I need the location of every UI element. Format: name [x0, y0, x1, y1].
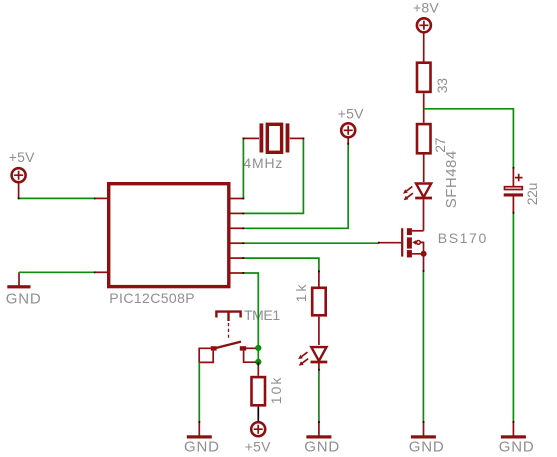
source junction dot: [421, 251, 427, 257]
wire LED2 to GND: [318, 370, 320, 422]
svg-text:+5V: +5V: [9, 149, 35, 165]
wire +5V mid to pin r3: [243, 145, 348, 229]
lead to R4: [257, 366, 259, 376]
supply +5V top-left: [12, 168, 26, 182]
switch S1 TME1 bracket: [216, 312, 240, 321]
svg-text:10k: 10k: [268, 376, 284, 405]
LED D2 arrows: [298, 352, 308, 366]
pin left 1: [96, 197, 107, 199]
wire crystal right to pin r2: [243, 138, 303, 213]
wire GND to IC pin: [19, 271, 96, 273]
top plate: [505, 187, 523, 190]
svg-text:TME1: TME1: [244, 307, 280, 323]
pin right 4: [230, 242, 243, 244]
LED D1 SFH484: [415, 184, 432, 199]
IC U1 PIC12C508P body: [109, 184, 229, 287]
ground GND 4: [423, 422, 425, 436]
wire R3 to LED2: [318, 317, 320, 345]
wire cap to GND: [512, 213, 514, 422]
resistor R4 10k: [252, 377, 266, 405]
lead LED2 down: [318, 363, 320, 370]
black lead dot2 to R4: [257, 362, 259, 365]
switch right pin top: [246, 347, 255, 349]
svg-text:+5V: +5V: [338, 105, 364, 121]
wire pin r5 to R3: [243, 258, 319, 271]
ground GND 5: [512, 422, 514, 436]
wire crystal left to pin r1: [242, 138, 244, 198]
channel blocks: [407, 228, 412, 235]
LED D2: [311, 347, 328, 362]
wire junction R1R2 to cap (net V8 branch): [424, 109, 514, 168]
right plate: [286, 123, 290, 152]
resistor R1 33: [417, 63, 431, 92]
left plate: [259, 123, 263, 152]
wire LED1 to Q1 drain: [423, 199, 425, 230]
switch right pin bottom: [244, 351, 255, 363]
ground GND 3: [318, 422, 320, 436]
ground GND 2: [198, 422, 200, 436]
wire R2 to LED1: [423, 154, 425, 182]
gate pin: [379, 242, 402, 244]
wire +8V to R1: [423, 33, 425, 62]
supply +8V: [417, 18, 431, 32]
wire pin r4 to Q1 gate: [243, 242, 378, 245]
junction dot 2: [255, 359, 261, 365]
resistor R2 27: [417, 124, 431, 153]
supply +5V mid: [341, 123, 355, 137]
ground GND left: [18, 272, 20, 285]
LED D1 arrows: [403, 187, 413, 201]
black lead R4 to +5V: [257, 407, 259, 422]
drain lead: [412, 230, 424, 232]
wire switch net from pin r6: [243, 273, 258, 362]
body rect: [267, 124, 281, 152]
crystal Q2 4MHz: [243, 123, 303, 152]
supply +5V bottom: [251, 422, 265, 436]
transistor Q1 BS170: [379, 228, 427, 271]
wire R1 to R2: [423, 93, 425, 123]
pin +5V top-left: [18, 182, 20, 198]
svg-text:1k: 1k: [293, 282, 309, 302]
pin right 5: [230, 257, 243, 259]
switch left pin loop: [199, 348, 213, 362]
switch right contact: [240, 346, 246, 350]
switch right pin top black tip: [255, 347, 259, 349]
svg-text:GND: GND: [304, 439, 340, 456]
switch left contact: [211, 346, 217, 350]
svg-text:22u: 22u: [524, 183, 540, 205]
svg-text:4MHz: 4MHz: [243, 155, 283, 171]
lead to R3: [318, 272, 320, 287]
wire Q1 source to GND: [422, 271, 424, 422]
capacitor C1 22u: [504, 168, 523, 213]
junction dot 1: [255, 345, 261, 351]
gate bar: [401, 228, 403, 256]
svg-text:+5V: +5V: [245, 439, 271, 455]
svg-text:GND: GND: [184, 439, 220, 456]
svg-text:SFH484: SFH484: [443, 150, 460, 208]
svg-text:GND: GND: [499, 439, 535, 456]
plus sign: [515, 174, 523, 182]
source lead: [412, 254, 424, 271]
pin right 2: [230, 212, 243, 214]
pin +5V mid: [347, 138, 349, 145]
bulk arrow: [412, 240, 416, 245]
svg-text:PIC12C508P: PIC12C508P: [109, 290, 195, 306]
svg-text:33: 33: [434, 78, 450, 93]
switch right pin bottom black tip: [255, 361, 259, 363]
pin right 1: [230, 198, 243, 200]
pin right 6: [230, 272, 243, 274]
resistor R3 1k: [312, 288, 326, 316]
svg-text:GND: GND: [6, 290, 42, 307]
pin connection dots: [18, 138, 515, 423]
left lead: [243, 137, 259, 139]
svg-text:BS170: BS170: [438, 230, 488, 246]
switch dashed actuator link: [228, 323, 230, 339]
pin left 2: [96, 271, 107, 273]
wire switch left to GND: [198, 362, 200, 421]
svg-text:+8V: +8V: [413, 0, 439, 16]
switch lever: [211, 342, 241, 350]
svg-text:GND: GND: [409, 439, 445, 456]
cap leads: [512, 168, 514, 213]
bottom plate: [504, 193, 523, 196]
right lead: [290, 137, 304, 139]
pin right 3: [230, 227, 243, 229]
wire +5V to IC pin (net VCC): [19, 197, 96, 199]
